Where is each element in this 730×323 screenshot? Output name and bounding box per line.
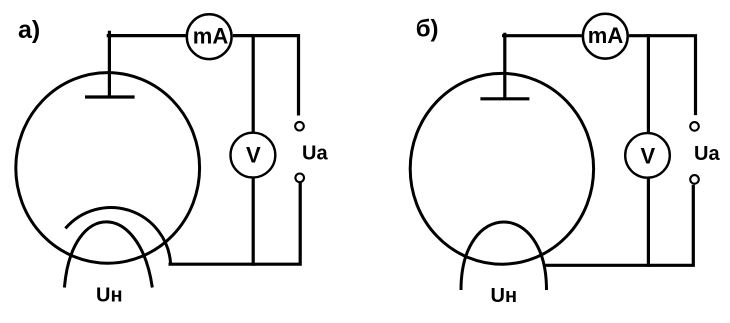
svg-text:Uн: Uн: [96, 285, 123, 307]
wire anode to mA: [107, 34, 187, 37]
terminal Ua upper: [690, 122, 699, 131]
svg-text:V: V: [246, 143, 261, 168]
wire branch to voltmeter: [252, 34, 255, 132]
svg-text:Ua: Ua: [694, 143, 720, 165]
tube VL1 envelope: [16, 73, 200, 264]
wire lower terminal to bottom corner: [545, 185, 693, 266]
wire lower terminal to bottom corner: [169, 183, 301, 265]
voltmeter PV1: [231, 133, 276, 178]
svg-text:Ua: Ua: [302, 142, 328, 164]
anode plate: [85, 95, 135, 98]
wire branch to voltmeter: [647, 34, 650, 133]
terminal Ua lower: [295, 174, 304, 183]
svg-text:mA: mA: [588, 23, 624, 48]
anode plate: [480, 97, 529, 100]
svg-text:б): б): [416, 16, 439, 43]
svg-text:V: V: [640, 143, 655, 168]
svg-text:а): а): [18, 16, 40, 44]
tube VL2 envelope: [410, 73, 593, 264]
directly heated filament: [461, 222, 547, 290]
voltmeter PV2: [625, 133, 670, 178]
milliammeter PA1: [187, 14, 232, 59]
terminal Ua upper: [295, 122, 304, 131]
wire V to bottom: [252, 178, 255, 266]
terminal Ua lower: [690, 175, 699, 184]
wire mA to top-right corner: [233, 36, 299, 116]
anode lead wire: [503, 33, 506, 99]
svg-text:Uн: Uн: [491, 285, 518, 307]
cathode arc: [65, 208, 170, 264]
wire anode to mA: [502, 34, 582, 37]
milliammeter PA2: [583, 14, 628, 59]
wire mA to top-right corner: [629, 36, 696, 115]
wire V to bottom: [647, 178, 650, 267]
anode lead wire: [108, 31, 111, 98]
svg-text:mA: mA: [193, 24, 229, 49]
heater filament: [64, 222, 152, 288]
